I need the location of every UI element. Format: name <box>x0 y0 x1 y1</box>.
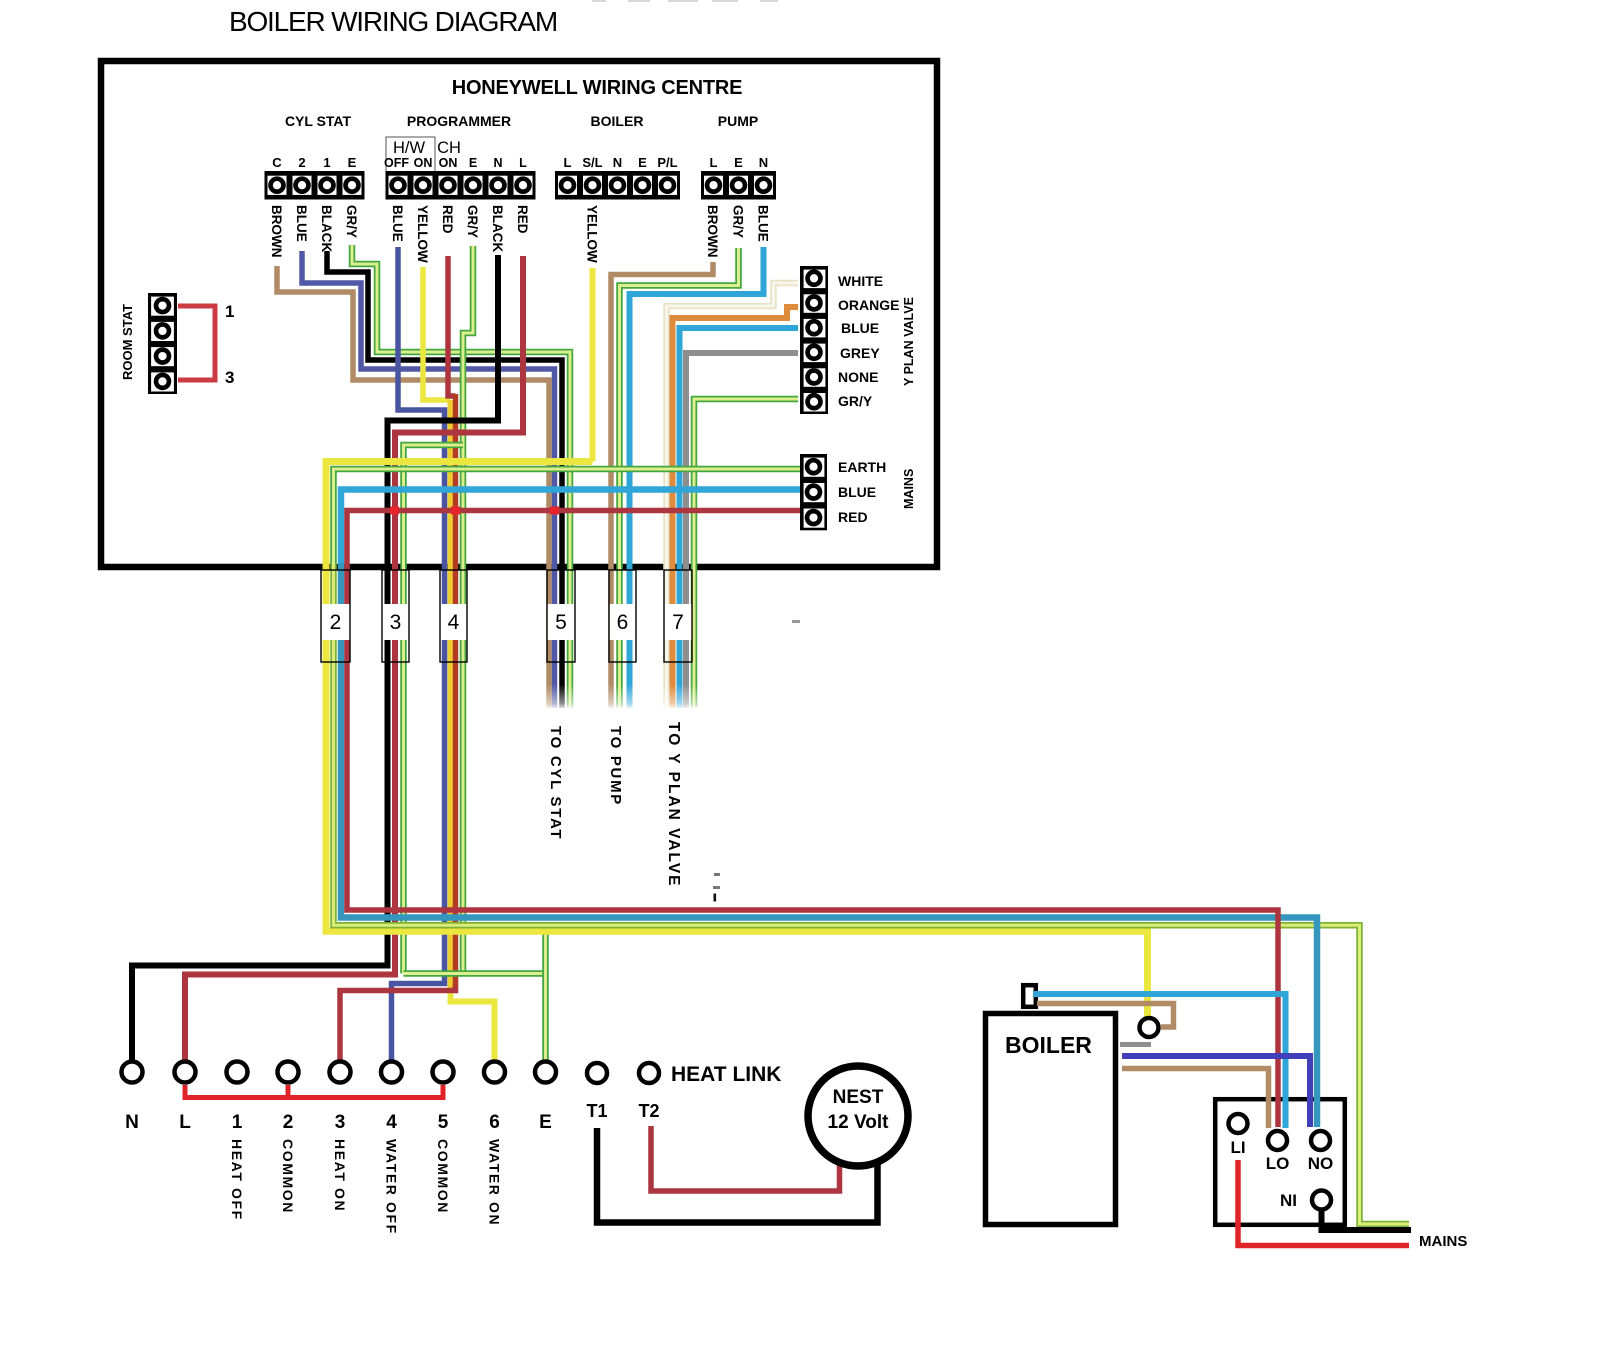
svg-text:12 Volt: 12 Volt <box>828 1112 890 1133</box>
svg-text:ON: ON <box>439 156 458 170</box>
mains terminal labels <box>838 459 886 525</box>
stray mark 2 <box>713 886 720 889</box>
wire mains red loop to LO <box>347 511 1278 1128</box>
junction terminal NO <box>1311 1131 1330 1150</box>
svg-text:2: 2 <box>330 611 342 634</box>
svg-text:NI: NI <box>1280 1191 1297 1210</box>
svg-text:E: E <box>469 156 477 170</box>
svg-text:T1: T1 <box>586 1101 607 1121</box>
nest thermostat circle <box>808 1066 908 1166</box>
wire pump E green-yellow to bundle 6 <box>620 248 739 708</box>
svg-text:C: C <box>272 155 282 170</box>
svg-text:HONEYWELL WIRING CENTRE: HONEYWELL WIRING CENTRE <box>452 77 743 99</box>
svg-text:RED: RED <box>838 509 868 525</box>
terminal block CYL STAT <box>265 171 365 200</box>
terminal block PUMP <box>701 171 776 200</box>
wire cyl-stat C brown to bundle 5 <box>277 266 549 708</box>
svg-text:L: L <box>179 1112 191 1133</box>
svg-text:1: 1 <box>232 1112 243 1133</box>
svg-text:WATER ON: WATER ON <box>487 1139 503 1226</box>
cable marker 2 <box>321 570 350 662</box>
svg-text:2: 2 <box>283 1112 294 1133</box>
wire mains blue loop to NO <box>341 490 800 564</box>
bottom terminal letters <box>125 1112 552 1133</box>
svg-text:ORANGE: ORANGE <box>838 297 899 313</box>
wire T2 red to nest <box>651 1126 840 1191</box>
function labels blue rotated <box>229 1139 503 1235</box>
wire NI black mains neutral <box>1322 1211 1412 1230</box>
stray tick mark <box>714 894 717 902</box>
svg-text:EARTH: EARTH <box>838 459 886 475</box>
svg-text:P/L: P/L <box>657 155 677 170</box>
wire y-plan blue to bundle 7 <box>680 328 799 708</box>
stray mark near valve label <box>792 620 800 623</box>
svg-text:CH: CH <box>437 139 461 157</box>
cable end fade <box>538 684 708 710</box>
wire boiler grey <box>1120 1042 1151 1047</box>
svg-text:ROOM STAT: ROOM STAT <box>120 304 135 380</box>
wiring centre box <box>101 61 937 567</box>
wire water-on yellow lower bend <box>451 991 495 1062</box>
svg-text:T2: T2 <box>638 1101 659 1121</box>
terminal block BOILER <box>555 171 680 200</box>
svg-text:TO PUMP: TO PUMP <box>607 726 624 806</box>
svg-text:GR/Y: GR/Y <box>838 393 873 409</box>
svg-text:GR/Y: GR/Y <box>731 205 746 238</box>
svg-text:OFF: OFF <box>384 156 409 170</box>
svg-text:BLUE: BLUE <box>838 484 876 500</box>
svg-text:YELLOW: YELLOW <box>415 205 430 263</box>
svg-text:ON: ON <box>414 156 433 170</box>
svg-text:3: 3 <box>335 1112 346 1133</box>
terminal letters BOILER <box>564 155 678 170</box>
svg-text:N: N <box>759 155 768 170</box>
svg-text:HEAT ON: HEAT ON <box>332 1139 348 1212</box>
wire earth branch to bundle 3 <box>404 445 464 974</box>
svg-text:4: 4 <box>448 611 460 634</box>
svg-text:GR/Y: GR/Y <box>465 205 480 238</box>
svg-text:PUMP: PUMP <box>718 113 758 129</box>
svg-text:BROWN: BROWN <box>269 205 284 258</box>
svg-text:N: N <box>493 156 502 170</box>
wire y-plan grey to bundle 7 <box>686 353 798 708</box>
svg-text:NO: NO <box>1308 1154 1334 1173</box>
boiler junction ring <box>1140 1018 1159 1037</box>
cable marker 3 <box>382 570 409 662</box>
wire commoning link L-2-5 red <box>185 1085 443 1098</box>
cropped text remnants top edge <box>592 0 778 2</box>
junction nub B <box>451 507 460 515</box>
svg-text:COMMON: COMMON <box>280 1139 296 1214</box>
svg-text:MAINS: MAINS <box>902 469 916 509</box>
svg-text:BLACK: BLACK <box>319 205 334 252</box>
svg-text:4: 4 <box>386 1112 397 1133</box>
bottom terminal circles N..E <box>122 1062 557 1083</box>
wire mains blue lower run <box>341 563 1317 1127</box>
wire programmer L red to terminal L <box>185 256 523 1062</box>
junction terminal LO <box>1268 1131 1287 1150</box>
boiler box <box>986 1014 1116 1225</box>
boiler flue terminal <box>1023 985 1036 1007</box>
junction terminal NI <box>1312 1191 1331 1210</box>
stray mark right of label <box>714 873 720 876</box>
svg-text:5: 5 <box>438 1112 449 1133</box>
terminal T2 circle <box>639 1063 659 1083</box>
svg-text:S/L: S/L <box>582 155 602 170</box>
terminal block PROGRAMMER <box>386 171 536 200</box>
wire earth run to terminal E <box>404 970 546 977</box>
svg-text:COMMON: COMMON <box>435 1139 451 1214</box>
wire programmer OFF blue to terminal 4 water-off <box>392 247 445 1062</box>
svg-text:6: 6 <box>489 1112 500 1133</box>
wire programmer HW-ON yellow upper <box>423 267 451 400</box>
svg-text:5: 5 <box>555 611 567 634</box>
svg-text:1: 1 <box>323 155 330 170</box>
svg-text:NONE: NONE <box>838 369 878 385</box>
svg-text:LO: LO <box>1266 1154 1290 1173</box>
wire boiler S/L yellow <box>590 268 596 462</box>
svg-text:GR/Y: GR/Y <box>344 205 359 238</box>
cable marker 4 <box>440 570 467 662</box>
wire boiler brown to LO <box>1122 1069 1269 1129</box>
svg-text:BLUE: BLUE <box>390 205 405 242</box>
wire heat-on rust mid section <box>453 394 459 988</box>
svg-text:BOILER: BOILER <box>591 113 644 129</box>
terminal T1 circle <box>587 1063 607 1083</box>
svg-text:7: 7 <box>672 611 684 634</box>
terminal block ROOM STAT <box>148 293 177 394</box>
wire colour labels (rotated) <box>269 205 771 263</box>
svg-text:WATER OFF: WATER OFF <box>384 1139 400 1235</box>
svg-text:PROGRAMMER: PROGRAMMER <box>407 113 511 129</box>
cable marker 6 <box>609 570 636 662</box>
wire commoning stub terminal 2 <box>286 1085 291 1098</box>
svg-text:YELLOW: YELLOW <box>585 205 600 263</box>
svg-text:BOILER: BOILER <box>1005 1032 1092 1058</box>
H/W CH box <box>386 137 435 172</box>
svg-text:BOILER WIRING DIAGRAM: BOILER WIRING DIAGRAM <box>229 6 557 37</box>
svg-text:N: N <box>613 155 622 170</box>
wire cyl-stat E green-yellow to bundle 5 <box>352 245 570 708</box>
wire switched-live yellow loop to boiler <box>326 462 1148 1018</box>
svg-text:3: 3 <box>225 368 234 387</box>
wire cyl-stat 2 blue to bundle 5 <box>302 251 555 708</box>
wire y-plan orange to bundle 7 <box>673 307 799 708</box>
cable marker 7 <box>664 570 692 662</box>
svg-text:BLACK: BLACK <box>490 205 505 252</box>
svg-text:GREY: GREY <box>840 345 880 361</box>
svg-text:WHITE: WHITE <box>838 273 883 289</box>
svg-text:RED: RED <box>440 205 455 234</box>
wire programmer HW-ON yellow to terminal 6 water-on <box>448 400 454 993</box>
svg-text:MAINS: MAINS <box>1419 1233 1467 1250</box>
wire programmer N black to terminal N <box>132 255 498 1062</box>
svg-text:E: E <box>539 1112 552 1133</box>
svg-text:HEAT OFF: HEAT OFF <box>229 1139 245 1221</box>
svg-text:L: L <box>710 155 718 170</box>
svg-text:HEAT LINK: HEAT LINK <box>671 1063 781 1086</box>
wire boiler blue to NO <box>1122 1056 1310 1127</box>
terminal block Y PLAN VALVE <box>800 266 828 414</box>
svg-text:E: E <box>348 155 357 170</box>
svg-text:BLUE: BLUE <box>841 320 879 336</box>
wire boiler flue blue <box>1033 994 1286 1128</box>
svg-text:Y PLAN VALVE: Y PLAN VALVE <box>902 297 916 386</box>
svg-text:1: 1 <box>225 302 234 321</box>
svg-text:2: 2 <box>298 155 305 170</box>
svg-text:E: E <box>638 155 647 170</box>
wire mains earth lower run <box>334 563 1410 1224</box>
wire boiler flue brown to junction ring <box>1037 1004 1174 1028</box>
wire programmer E green-yellow main run <box>463 246 473 974</box>
svg-text:CYL STAT: CYL STAT <box>285 113 352 129</box>
svg-text:RED: RED <box>515 205 530 234</box>
svg-text:BROWN: BROWN <box>705 205 720 258</box>
wire y-plan gr-y to bundle 7 <box>694 399 798 708</box>
wire LI red mains feed <box>1238 1160 1409 1246</box>
svg-text:NEST: NEST <box>833 1087 884 1108</box>
wire programmer CH-ON red to terminal 3 heat-on <box>448 256 456 396</box>
svg-text:L: L <box>519 156 527 170</box>
wire pump N blue to bundle 6 <box>630 247 764 708</box>
terminal letters PUMP <box>710 155 769 170</box>
svg-text:3: 3 <box>390 611 402 634</box>
svg-text:TO CYL STAT: TO CYL STAT <box>547 726 564 840</box>
wire heat-on red lower bend <box>340 986 456 1062</box>
terminal block MAINS <box>800 454 827 530</box>
svg-text:LI: LI <box>1230 1138 1245 1157</box>
wire T1 black to nest <box>597 1128 878 1223</box>
svg-text:BLUE: BLUE <box>756 205 771 242</box>
terminal letters CYL STAT <box>272 155 356 170</box>
wire mains earth green-yellow loop <box>334 469 801 563</box>
wire cyl-stat 1 black to bundle 5 <box>327 251 562 708</box>
junction nub C <box>550 507 559 515</box>
terminal letters PROGRAMMER <box>384 156 527 170</box>
wire pump L brown to bundle 6 <box>611 262 713 708</box>
svg-text:L: L <box>564 155 572 170</box>
cable marker 5 <box>547 570 575 662</box>
junction nub A <box>390 507 399 515</box>
junction terminal LI <box>1229 1114 1248 1133</box>
wire earth drop to terminal E <box>542 925 549 1062</box>
svg-text:H/W: H/W <box>393 139 426 157</box>
svg-text:N: N <box>125 1112 139 1133</box>
svg-text:BLUE: BLUE <box>294 205 309 242</box>
Y plan valve terminal labels <box>838 273 899 409</box>
svg-text:TO Y PLAN VALVE: TO Y PLAN VALVE <box>665 722 682 888</box>
wire y-plan white to bundle 7 <box>667 283 799 708</box>
svg-text:E: E <box>734 155 743 170</box>
junction box <box>1215 1099 1345 1225</box>
svg-text:6: 6 <box>617 611 629 634</box>
room stat red jumper <box>178 306 215 380</box>
